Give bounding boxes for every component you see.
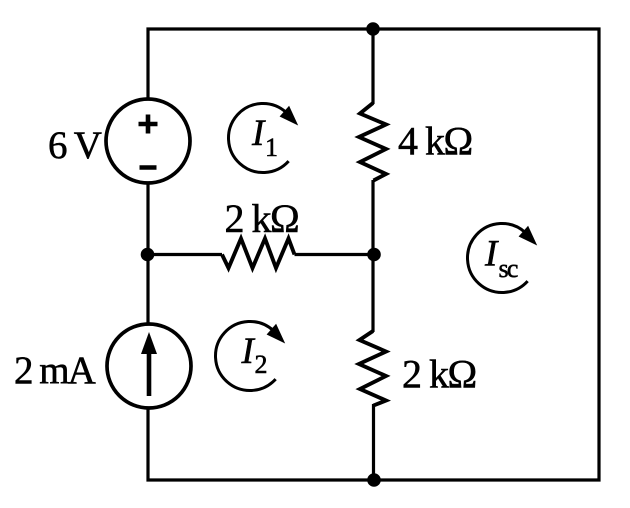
svg-text:1: 1 — [265, 133, 278, 162]
svg-text:sc: sc — [499, 254, 518, 283]
svg-text:2 kΩ: 2 kΩ — [402, 352, 476, 397]
svg-text:2: 2 — [255, 350, 268, 379]
svg-text:I: I — [484, 234, 499, 275]
svg-text:4 kΩ: 4 kΩ — [398, 119, 472, 164]
svg-text:2 kΩ: 2 kΩ — [225, 196, 299, 241]
svg-text:2 mA: 2 mA — [14, 349, 96, 392]
svg-text:6 V: 6 V — [48, 124, 102, 167]
svg-text:I: I — [251, 113, 266, 154]
svg-text:I: I — [241, 331, 256, 372]
